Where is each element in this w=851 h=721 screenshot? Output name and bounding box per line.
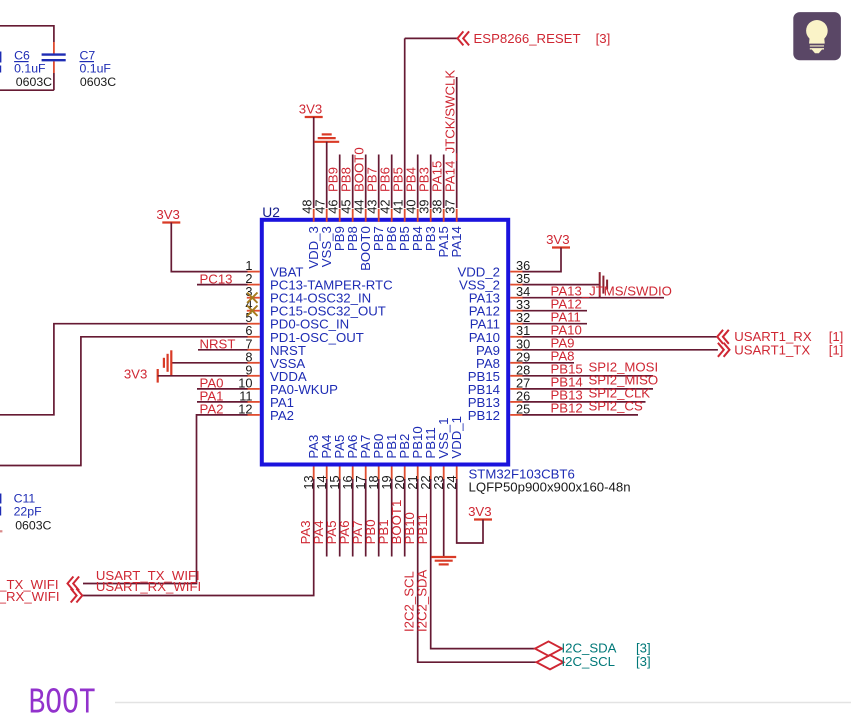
ground at pin8 VSSA: [170, 350, 172, 375]
lightbulb icon button: [793, 12, 841, 60]
pin stubs bottom side pins 13-24: [313, 467, 315, 480]
pin stubs right side pins 36-25: [510, 271, 523, 273]
svg-text:PB12: PB12: [551, 401, 583, 416]
svg-text:PB11: PB11: [415, 513, 430, 544]
wire pin7 NRST label stub: [198, 349, 248, 351]
wire top pin label stub (BOOT0): [365, 155, 367, 209]
wire C6 top vertical: [53, 25, 55, 42]
power 3V3 at pin48 VDD_3: [305, 116, 323, 118]
svg-text:LQFP50p900x900x160-48n: LQFP50p900x900x160-48n: [469, 479, 631, 494]
wire right pin label stub (PB14): [523, 388, 654, 390]
svg-text:3V3: 3V3: [156, 207, 179, 222]
wire top pin label stub (PB7): [378, 155, 380, 209]
svg-text:0.1uF: 0.1uF: [80, 62, 112, 76]
wire top pin label stub (PB8): [352, 155, 354, 209]
wire right pin label stub (PA8): [523, 362, 575, 364]
wire pin31 PA10 to USART1_RX flag: [523, 336, 718, 338]
wire bottom pin label stub (PB1): [391, 479, 393, 557]
svg-text:PA14: PA14: [449, 226, 464, 257]
ground at pin23 VSS_1: [431, 556, 456, 558]
ground at pin35 VSS_2: [599, 272, 601, 297]
wire right pin label stub (PA13_JTMS/SWDIO): [523, 297, 665, 299]
svg-text:USART_RX_WIFI: USART_RX_WIFI: [96, 579, 201, 594]
sheet-in arrow USART1_RX: [717, 330, 723, 344]
wire pin30 PA9 to USART1_TX flag: [523, 349, 718, 351]
wire top pin label stub (PB9): [339, 155, 341, 209]
svg-text:0603C: 0603C: [15, 519, 51, 533]
power 3V3 at pin9 VDDA: [157, 369, 159, 383]
svg-text:VDD_1: VDD_1: [449, 416, 464, 459]
svg-text:C6: C6: [14, 49, 30, 63]
wire bottom pin label stub (PA7): [365, 479, 367, 557]
svg-text:PA2: PA2: [270, 408, 294, 423]
wire pin23 VSS_1 to ground: [443, 479, 445, 557]
wire bottom-left horizontal to off-page: [0, 89, 54, 91]
wire bottom pin label stub (PA4): [326, 479, 328, 557]
svg-text:0.1uF: 0.1uF: [14, 62, 46, 76]
sheet-in arrow USART_TX_WIFI: [68, 577, 74, 591]
svg-text:3V3: 3V3: [546, 232, 569, 247]
svg-text:C11: C11: [14, 492, 36, 506]
svg-text:PB12: PB12: [468, 408, 500, 423]
wire pin12 PA2 to USART_TX_WIFI flag: [83, 415, 248, 584]
op-amp U2 body (STM32F103CBT6): [262, 220, 508, 465]
svg-text:[3]: [3]: [596, 31, 611, 46]
svg-text:ESP8266_RESET: ESP8266_RESET: [474, 31, 581, 46]
wire pin11 PA1 label stub: [197, 401, 248, 403]
capacitor C6 pin stubs: [53, 42, 55, 54]
wire pin41 PB5 to ESP8266_RESET: [404, 38, 406, 208]
svg-text:BOOT: BOOT: [29, 682, 96, 721]
svg-text:I2C_SCL: I2C_SCL: [562, 654, 616, 669]
svg-text:USART1_TX: USART1_TX: [734, 342, 810, 357]
wire right pin label stub (PB12): [523, 414, 639, 416]
wire pin48 VDD_3 to 3V3: [313, 117, 315, 208]
edge fragment wire near C11: [0, 530, 2, 532]
wire pin24 VDD_1 to 3V3: [457, 479, 483, 543]
wire bottom pin label stub (PA5): [339, 479, 341, 557]
svg-text:3V3: 3V3: [299, 102, 322, 117]
wire pin21 PB10 to I2C_SCL flag: [418, 479, 537, 662]
svg-text:SPI2_CS: SPI2_CS: [589, 399, 643, 414]
svg-text:U2: U2: [262, 205, 280, 220]
wire pin8 VSSA to ground: [171, 362, 247, 364]
power 3V3 at pin36 VDD_2: [552, 246, 570, 248]
pin stubs top side pins 48-37: [313, 209, 315, 222]
faint divider line bottom: [115, 702, 851, 704]
wire top pin label stub (PB3): [430, 155, 432, 209]
wire right pin label stub (PA12): [523, 310, 588, 312]
svg-text:[1]: [1]: [829, 342, 844, 357]
wire pin6 PD1-OSC_OUT to off-page left: [0, 337, 248, 466]
svg-text:3V3: 3V3: [468, 504, 491, 519]
edge fragment left of C6: [0, 52, 1, 63]
svg-text:0603C: 0603C: [16, 75, 52, 89]
sheet-in arrow ESP8266_RESET: [458, 31, 464, 45]
pin stubs left side pins 1-12: [247, 271, 260, 273]
wire top-left horizontal to off-page: [0, 25, 54, 27]
flag arrow I2C_SCL: [537, 655, 564, 669]
wire C6 bottom vertical: [53, 73, 55, 90]
wire right pin label stub (PB15): [523, 375, 654, 377]
sheet-out arrow USART_RX_WIFI: [76, 589, 82, 603]
wire pin1 VBAT to 3V3: [171, 223, 247, 272]
wire pin35 VSS_2 to ground: [523, 284, 600, 286]
wire bottom pin label stub (BOOT1): [404, 479, 406, 557]
wire pin13 PA3 to USART_RX_WIFI flag: [83, 479, 314, 596]
wire ESP8266_RESET horizontal: [405, 37, 458, 39]
wire bottom pin label stub (PB0): [378, 479, 380, 557]
wire pin10 PA0 label stub: [197, 388, 248, 390]
no-connect X pin4: [247, 306, 257, 316]
svg-text:PA14_JTCK/SWCLK: PA14_JTCK/SWCLK: [442, 70, 457, 192]
power 3V3 at pin1 VBAT: [162, 221, 180, 223]
svg-text:T_RX_WIFI: T_RX_WIFI: [0, 589, 60, 604]
svg-text:0603C: 0603C: [80, 75, 116, 89]
svg-text:3V3: 3V3: [124, 367, 147, 382]
wire pin47 VSS_3 to ground: [326, 142, 328, 208]
wire pin36 VDD_2 to 3V3: [523, 248, 562, 272]
capacitor C6: [42, 53, 66, 55]
sheet-out arrow USART1_TX: [724, 343, 730, 357]
flag arrow I2C_SDA: [535, 641, 562, 655]
wire top pin label stub (PB6): [391, 155, 393, 209]
wire top pin label stub (PA15): [443, 155, 445, 209]
wire pin9 VDDA to 3V3: [158, 375, 248, 377]
wire pin5 PD0-OSC_IN to off-page left: [0, 324, 248, 415]
ground at pin47 VSS_3 (inverted): [314, 141, 339, 143]
wire top pin label stub (PB4): [417, 155, 419, 209]
wire right pin label stub (PA11): [523, 323, 588, 325]
wire pin22 PB11 to I2C_SDA flag: [431, 479, 535, 649]
wire pin2 PC13 label stub: [197, 284, 248, 286]
svg-text:C7: C7: [80, 49, 96, 63]
power 3V3 at pin24 VDD_1: [474, 518, 492, 520]
edge fragment capacitor C11 plates: [0, 494, 1, 504]
no-connect X pin3: [247, 293, 257, 303]
svg-text:22pF: 22pF: [14, 505, 43, 519]
svg-text:[3]: [3]: [636, 654, 651, 669]
wire pin37 PA14 label stub: [456, 77, 458, 208]
wire right pin label stub (PB13): [523, 401, 646, 403]
wire bottom pin label stub (PA6): [352, 479, 354, 557]
svg-text:I2C2_SDA: I2C2_SDA: [415, 569, 430, 632]
